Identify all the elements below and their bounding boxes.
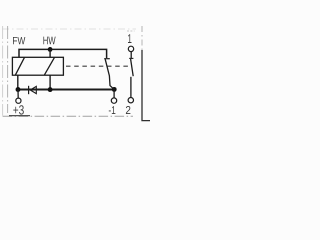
junction dot bus right (switch pivot) (112, 87, 117, 92)
junction dot bus center (48, 87, 53, 92)
heater block (box with two diagonal elements) (12, 57, 63, 75)
label -1 (109, 106, 116, 114)
bottom boundary chain line (3, 115, 133, 117)
junction dot bus left (16, 87, 21, 92)
wire: HW drop into box (49, 49, 51, 57)
terminal circle 2 (128, 98, 133, 103)
connector symbol bar (28, 86, 30, 94)
label FW (13, 37, 25, 44)
terminal circle 1 (top right) (128, 46, 133, 51)
left outer boundary chain line (2, 26, 4, 116)
switch 2 lead from circle (130, 52, 132, 59)
label HW (43, 37, 55, 45)
switch 1 moving arm (105, 59, 114, 89)
switch 2 fixed contact tick (129, 57, 133, 59)
label 2 (126, 106, 130, 114)
right boundary chain (upper faint part) (141, 26, 143, 50)
right boundary solid segment with bottom-right corner (142, 50, 150, 121)
connector symbol triangle (30, 86, 36, 93)
terminal circle +3 (16, 98, 21, 103)
bus wire (bottom horizontal) (18, 89, 114, 91)
wire: box bottom-center drop to bus (49, 75, 51, 89)
terminal lead +3 (17, 89, 19, 98)
mechanical coupling dashed line (66, 65, 131, 67)
switch 1 fixed contact tick (104, 58, 110, 60)
switch 2 moving arm (131, 59, 134, 76)
junction dot at HW tap (48, 47, 53, 52)
label 1 (top right terminal) (128, 34, 132, 43)
terminal circle -1 (111, 98, 116, 103)
faint cropped print remnant above label 1 (127, 30, 135, 32)
wire: top supply line (19, 49, 107, 58)
left inner boundary chain line (7, 26, 9, 113)
switch 2 bottom lead (130, 77, 132, 98)
dark dash segment under +3 (chain phase) (9, 115, 30, 117)
wire: box bottom-left drop to bus (17, 75, 19, 89)
label +3 (13, 105, 23, 114)
heating element slash 1 (15, 58, 24, 75)
top boundary chain line (2, 28, 136, 30)
heating element slash 2 (44, 58, 54, 75)
terminal lead -1 (113, 89, 115, 98)
